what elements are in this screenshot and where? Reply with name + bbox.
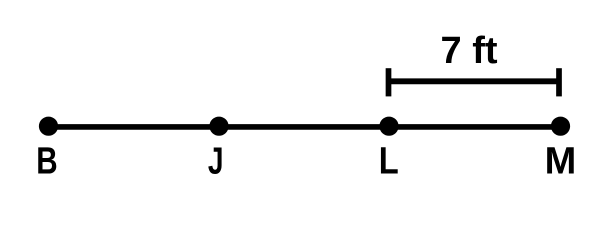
wire: measurement bracket L to M: [389, 78, 560, 84]
svg-text:7 ft: 7 ft: [441, 30, 498, 72]
node B: [39, 117, 58, 136]
svg-text:L: L: [379, 139, 399, 182]
svg-text:M: M: [545, 141, 577, 183]
svg-text:J: J: [208, 141, 224, 183]
node L: [379, 117, 398, 136]
wire: main segment B to M: [49, 124, 561, 130]
node J: [209, 117, 228, 136]
wire: bracket left tick: [386, 68, 392, 96]
svg-text:B: B: [36, 140, 57, 182]
node M: [551, 117, 570, 136]
wire: bracket right tick: [556, 68, 562, 96]
